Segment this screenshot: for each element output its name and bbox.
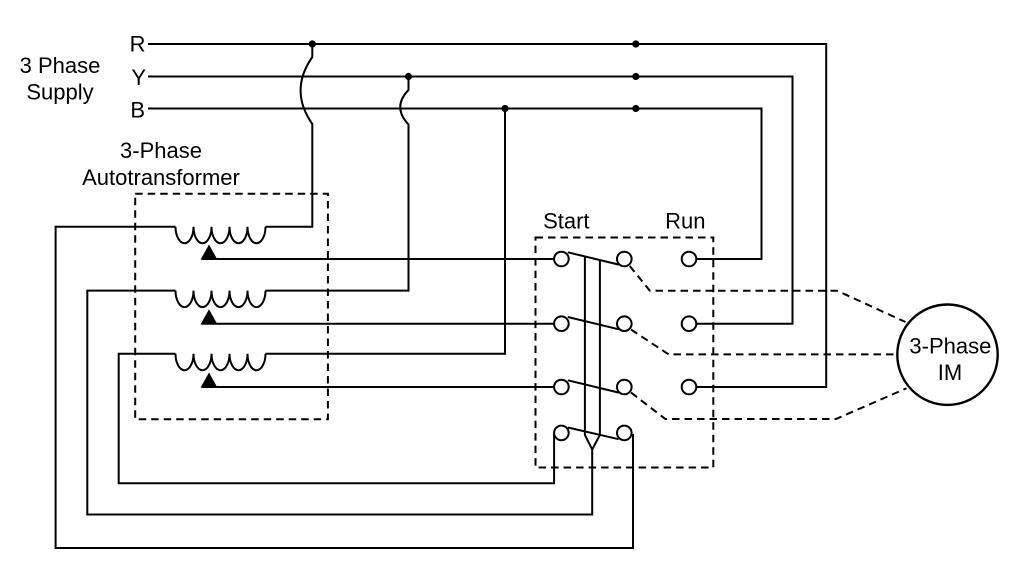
svg-text:3-Phase: 3-Phase [909, 333, 991, 358]
svg-text:R: R [130, 32, 146, 57]
svg-text:Run: Run [665, 208, 705, 233]
svg-text:B: B [130, 98, 145, 123]
svg-text:Supply: Supply [26, 80, 93, 105]
svg-text:3 Phase: 3 Phase [20, 53, 101, 78]
svg-text:Autotransformer: Autotransformer [82, 165, 240, 190]
svg-text:3-Phase: 3-Phase [120, 138, 202, 163]
svg-text:Y: Y [131, 65, 146, 90]
svg-text:IM: IM [938, 360, 962, 385]
svg-text:Start: Start [543, 208, 589, 233]
